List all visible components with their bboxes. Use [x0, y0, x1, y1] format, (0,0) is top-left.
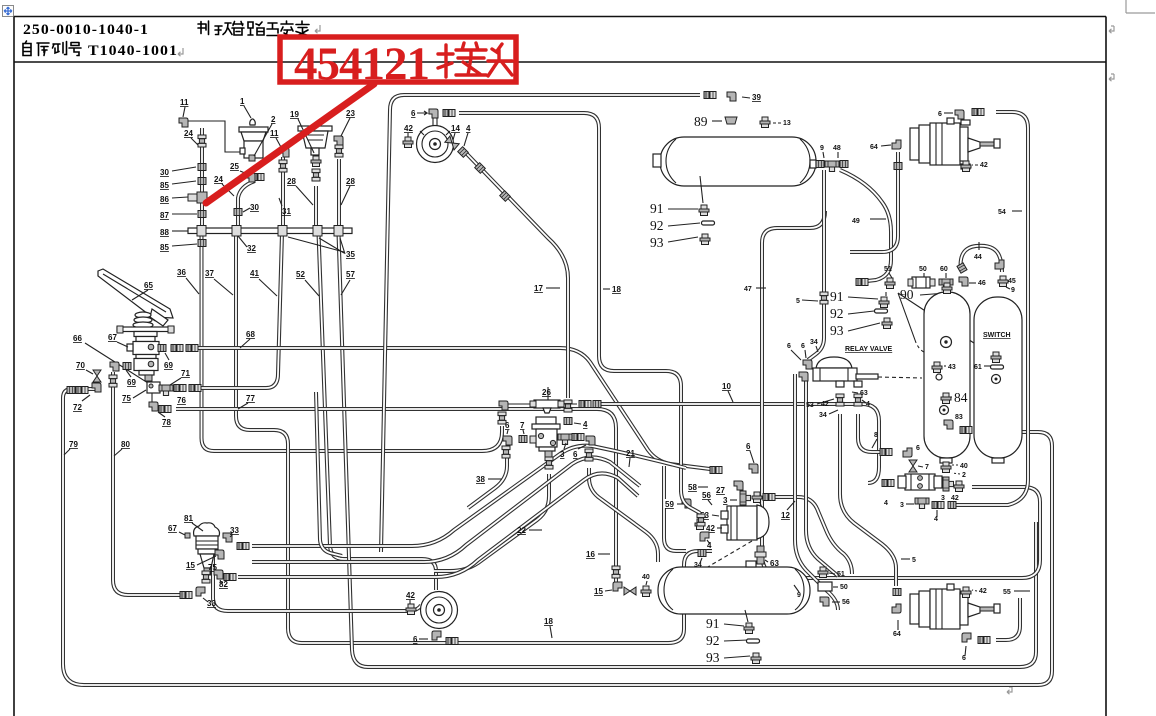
svg-text:80: 80 [121, 440, 130, 449]
svg-text:47: 47 [744, 286, 752, 293]
svg-text:28: 28 [346, 177, 355, 186]
wire pipe under valve 19 [315, 186, 317, 228]
svg-text:33: 33 [230, 526, 239, 535]
label 22 [517, 526, 542, 535]
relay valve 2 body [695, 491, 769, 550]
svg-text:77: 77 [246, 394, 255, 403]
connector stack under 23 [335, 145, 343, 157]
bolt 40 at tank 2 [641, 574, 651, 597]
svg-text:37: 37 [205, 269, 214, 278]
svg-text:23: 23 [346, 109, 355, 118]
tee fitting at tank 1 right [810, 160, 848, 172]
check valve 7 [909, 460, 929, 472]
svg-text:42: 42 [980, 162, 988, 169]
svg-text:93: 93 [830, 323, 844, 338]
svg-text:2: 2 [271, 115, 276, 124]
svg-text:92: 92 [706, 633, 720, 648]
tee 26 [530, 387, 564, 413]
label 77 [238, 394, 255, 409]
label 28 right [341, 177, 355, 205]
wire relay valve down pipe b [806, 380, 838, 576]
label 90 [900, 287, 946, 302]
svg-text:92: 92 [650, 218, 664, 233]
svg-text:6: 6 [938, 111, 942, 118]
svg-text:38: 38 [476, 475, 485, 484]
svg-text:75: 75 [122, 394, 131, 403]
label 5 at chamber 2 pipe [901, 557, 916, 564]
elbow 6 under horn 2 [413, 631, 458, 645]
connector 85 lower [198, 240, 206, 247]
connector row 82 [202, 570, 236, 589]
svg-text:63: 63 [860, 390, 868, 397]
nut 43 under relay 2 [763, 573, 789, 584]
valve 14 and fitting 4 on diagonal [445, 124, 485, 173]
svg-text:46: 46 [978, 280, 986, 287]
svg-text:250-0010-1040-1: 250-0010-1040-1 [23, 22, 149, 38]
wire pipe 10 [598, 404, 879, 483]
wire pipe 18 [459, 113, 681, 492]
wire pipe 77 [176, 409, 616, 583]
connector stack on pipe 31 [279, 160, 287, 172]
connector on pipe 80 [109, 375, 117, 387]
label 59 [664, 499, 683, 509]
label 67 [108, 333, 128, 347]
svg-text:7: 7 [925, 464, 929, 471]
serif labels 91 92 93 bottom set [706, 610, 761, 665]
svg-text:43: 43 [948, 364, 956, 371]
svg-text:86: 86 [160, 195, 169, 204]
svg-text:41: 41 [250, 269, 259, 278]
wire top pipe 39 run [404, 94, 700, 96]
svg-text:57: 57 [346, 270, 355, 279]
svg-text:83: 83 [955, 414, 963, 421]
svg-text:39: 39 [752, 93, 761, 102]
elbow 59 [682, 499, 691, 508]
svg-text:9: 9 [820, 145, 824, 152]
svg-text:55: 55 [1003, 589, 1011, 596]
svg-text:T1040-1001: T1040-1001 [88, 43, 178, 59]
svg-text:32: 32 [247, 244, 256, 253]
svg-text:17: 17 [534, 284, 543, 293]
svg-text:51: 51 [884, 266, 892, 273]
elbow and connectors 72 [67, 383, 101, 412]
svg-text:93: 93 [650, 235, 664, 250]
svg-text:3: 3 [723, 496, 728, 505]
svg-text:10: 10 [722, 382, 731, 391]
foot brake treadle valve 65 [98, 269, 174, 333]
wire hose 44 [961, 246, 1002, 272]
svg-text:24: 24 [184, 129, 193, 138]
serif labels 91 92 93 top set [650, 176, 715, 250]
svg-text:67: 67 [108, 333, 117, 342]
label 18 lower [544, 617, 553, 638]
svg-text:33: 33 [207, 599, 216, 608]
svg-text:91: 91 [830, 289, 844, 304]
svg-text:36: 36 [177, 268, 186, 277]
wire pipe 37 long run to rear tank [236, 233, 712, 643]
svg-text:67: 67 [168, 524, 177, 533]
word move handle icon [3, 6, 14, 17]
svg-text:3: 3 [941, 495, 945, 502]
wire air filter pipe run 3 [238, 473, 638, 577]
svg-text:59: 59 [665, 500, 674, 509]
svg-text:19: 19 [290, 110, 299, 119]
label 31 [279, 198, 291, 216]
svg-text:42: 42 [406, 591, 415, 600]
svg-text:21: 21 [626, 449, 635, 458]
svg-text:454121: 454121 [294, 38, 429, 90]
svg-text:2: 2 [962, 472, 966, 479]
wire pipe 36 [202, 233, 503, 451]
svg-text:64: 64 [893, 631, 901, 638]
svg-text:56: 56 [842, 599, 850, 606]
svg-text:48: 48 [833, 145, 841, 152]
pilcrow after serial [178, 48, 183, 56]
label 15 at filter [186, 556, 216, 570]
svg-text:24: 24 [214, 175, 223, 184]
svg-text:70: 70 [76, 361, 85, 370]
air horn 1 [417, 126, 454, 163]
label 55 [1003, 589, 1030, 596]
svg-text:85: 85 [160, 243, 169, 252]
valve 75 square [122, 382, 160, 403]
svg-text:9: 9 [797, 592, 801, 599]
paragraph mark right of body row [1109, 74, 1114, 81]
fitting row 8 with elbow [880, 445, 920, 457]
svg-text:5: 5 [912, 557, 916, 564]
bolt 13 [760, 117, 791, 128]
brake chamber 1 [910, 118, 1000, 169]
bolt 63 under relay 2 [755, 546, 779, 568]
air tank 1 horizontal [653, 137, 816, 186]
wire thin link from elbow 11 to valve 1 [188, 121, 243, 152]
wire brake chamber 1 left pipe [850, 152, 898, 252]
svg-text:40: 40 [960, 463, 968, 470]
connector on pipe 17 diagonal [500, 191, 511, 202]
fittings at tank 2 right end [794, 567, 850, 606]
svg-text:6: 6 [787, 343, 791, 350]
svg-text:12: 12 [781, 511, 790, 520]
connector 30 on pipe 24 [198, 164, 206, 171]
label 38 [476, 475, 502, 484]
elbow 6 at horn 1 top [411, 109, 455, 126]
label 10 [722, 382, 733, 402]
label 49 [852, 218, 886, 225]
air horn 2 [421, 592, 458, 629]
svg-text:34: 34 [810, 339, 818, 346]
wire pipe 31 [282, 157, 284, 228]
svg-text:60: 60 [940, 266, 948, 273]
label 35 with three leaders [288, 237, 355, 259]
wire pipe 24 vertical [201, 128, 203, 228]
svg-text:42: 42 [979, 588, 987, 595]
fitting row 51 50 60 46 [856, 266, 986, 290]
connector 87 [198, 211, 206, 218]
label 47 [744, 286, 766, 293]
fittings right of valve and label 69 [158, 345, 198, 371]
wire relay valve down pipe a [795, 374, 838, 610]
dashed pointer from relay 2 [706, 541, 752, 568]
elbow 33 right of filter [223, 526, 249, 550]
svg-text:11: 11 [270, 129, 279, 138]
wire pipe 49 [840, 170, 891, 282]
relay valve 1 [787, 339, 922, 419]
svg-text:64: 64 [870, 144, 878, 151]
valve 1 hydraulic reservoir [239, 97, 276, 161]
svg-text:1: 1 [240, 97, 245, 106]
svg-text:31: 31 [282, 207, 291, 216]
red annotation leader line [206, 84, 374, 203]
svg-text:9: 9 [1011, 287, 1015, 294]
svg-text:4: 4 [583, 420, 588, 429]
svg-text:11: 11 [180, 98, 189, 107]
svg-text:30: 30 [160, 168, 169, 177]
svg-text:8: 8 [874, 432, 878, 439]
labels 9 48 at tank 1 [820, 145, 841, 158]
svg-text:3: 3 [560, 450, 565, 459]
svg-text:65: 65 [144, 281, 153, 290]
paragraph mark right of header row [1109, 26, 1114, 33]
wire pipe 41 lower extension [316, 392, 342, 556]
svg-text:30: 30 [250, 203, 259, 212]
elbow 23 [334, 109, 355, 145]
label 71 [170, 369, 190, 385]
svg-text:40: 40 [642, 574, 650, 581]
connectors on pipe 17 lower [564, 400, 588, 429]
brake chamber 2 [910, 584, 1000, 629]
fitting 25 row under valve 1 [230, 162, 264, 182]
svg-text:4: 4 [934, 516, 938, 523]
thin link line through tee 26 [505, 403, 577, 405]
svg-text:RELAY VALVE: RELAY VALVE [845, 346, 893, 353]
red annotation CJK jie tou [438, 43, 512, 77]
svg-text:45: 45 [1008, 278, 1016, 285]
air filter 81 assembly [168, 514, 220, 575]
svg-text:6: 6 [413, 635, 418, 644]
red annotation box 454121 [280, 37, 516, 82]
svg-text:42: 42 [951, 495, 959, 502]
hose 44 fittings and labels 45 9 [957, 242, 1016, 294]
svg-text:6: 6 [962, 655, 966, 662]
elbow fitting 11 [179, 98, 189, 127]
svg-text:44: 44 [974, 254, 982, 261]
svg-text:61: 61 [974, 364, 982, 371]
fitting 89 [694, 114, 737, 129]
pilcrow after title [315, 25, 320, 33]
svg-text:71: 71 [181, 369, 190, 378]
svg-text:89: 89 [694, 114, 708, 129]
svg-text:42: 42 [404, 124, 413, 133]
svg-text:27: 27 [716, 486, 725, 495]
svg-text:68: 68 [246, 330, 255, 339]
label 76 [177, 396, 186, 405]
svg-text:93: 93 [706, 650, 720, 665]
elbow 6 under chamber 2 [962, 633, 990, 662]
svg-text:34: 34 [819, 412, 827, 419]
label 68 [240, 330, 255, 348]
svg-text:91: 91 [650, 201, 664, 216]
connector 4 and elbow 6 right [572, 434, 595, 462]
label 79 [64, 440, 78, 455]
svg-text:92: 92 [830, 306, 844, 321]
svg-text:26: 26 [542, 388, 551, 397]
elbow 64 at chamber 2 [892, 589, 901, 639]
bolt 42 at horn 1 [403, 124, 413, 148]
svg-text:18: 18 [544, 617, 553, 626]
svg-text:78: 78 [162, 418, 171, 427]
wire brake chamber 2 drain pipe [996, 598, 1020, 640]
label 54 [998, 209, 1022, 216]
svg-text:69: 69 [127, 378, 136, 387]
wire pipe 68 [196, 348, 710, 469]
connector on pipe 5a [820, 292, 828, 304]
svg-text:85: 85 [160, 181, 169, 190]
wire pipe 47 big loop [762, 211, 1040, 578]
bolt 42 at horn 2 [406, 591, 416, 615]
label 80 [114, 440, 130, 456]
tee 3 under cross [900, 498, 956, 523]
svg-text:25: 25 [230, 162, 239, 171]
paragraph mark bottom of diagram [1007, 687, 1012, 694]
svg-text:4: 4 [884, 500, 888, 507]
svg-text:4: 4 [866, 401, 870, 408]
foot valve body 67 [127, 332, 159, 382]
svg-text:28: 28 [287, 177, 296, 186]
connector stack into relay 2 [697, 514, 705, 526]
wire pipe 17 [466, 153, 568, 398]
wire brake valve bottom pipe [434, 474, 549, 571]
relay valve 2 group [688, 442, 795, 520]
elbow 33 lower at filter drain [180, 587, 216, 608]
svg-text:66: 66 [73, 334, 82, 343]
svg-text:53: 53 [806, 402, 814, 409]
labels 30 85 86 87 88 85 [160, 167, 197, 252]
wire pipe 71 76 run [200, 387, 266, 389]
svg-text:76: 76 [177, 396, 186, 405]
air tank B vertical with switch [974, 297, 1022, 463]
elbow 11 second [270, 129, 289, 157]
label 32 [238, 236, 256, 253]
svg-text:6: 6 [505, 421, 510, 430]
label 8 [872, 432, 878, 448]
svg-text:4: 4 [466, 124, 471, 133]
svg-text:42: 42 [821, 401, 829, 408]
label 24 second [214, 175, 234, 196]
connector and elbow 39 on top run [704, 92, 761, 103]
connector 34 at tank 2 [694, 550, 706, 570]
wire pipe 57 long bottom run [339, 233, 1037, 667]
svg-text:69: 69 [164, 361, 173, 370]
wire pipe 80 from foot valve to filter [113, 372, 182, 595]
tee 3 42 right cluster [941, 477, 964, 502]
svg-text:79: 79 [69, 440, 78, 449]
tee and connectors on line 71 [159, 385, 201, 396]
label 16 [586, 550, 610, 559]
elbow 69 left under valve [110, 362, 136, 387]
wire pipe 5 upper feed [808, 170, 824, 360]
wire link from pipe 18 to relay valve 2 [681, 490, 700, 513]
wire pipe 5 lower to brake chamber [840, 414, 896, 586]
svg-text:58: 58 [688, 483, 697, 492]
svg-text:SWITCH: SWITCH [983, 332, 1011, 339]
wire pipe from fitting 25 [238, 181, 255, 228]
elbow 6 above chamber 1 [938, 109, 984, 120]
wire pipe under elbow 23 [338, 159, 340, 228]
svg-text:5: 5 [796, 298, 800, 305]
bolt 42 at chamber 2 [961, 587, 987, 598]
header line2 CJK: zi xu lie hao [23, 41, 81, 56]
svg-text:91: 91 [706, 616, 720, 631]
label 17 [534, 284, 560, 293]
svg-text:52: 52 [296, 270, 305, 279]
svg-text:15: 15 [594, 587, 603, 596]
label 28 left [287, 177, 313, 205]
wire pipe from horn elbow vertical [381, 95, 404, 552]
svg-text:18: 18 [612, 285, 621, 294]
svg-text:22: 22 [517, 526, 526, 535]
bolt 42 under chamber 1 [961, 161, 988, 172]
svg-text:88: 88 [160, 228, 169, 237]
svg-text:6: 6 [916, 445, 920, 452]
bolt 40 and fitting 2 under tank A [941, 462, 968, 479]
svg-text:56: 56 [702, 491, 711, 500]
wire air filter pipe run 2 [252, 457, 640, 562]
elbow and connectors on line 78 [149, 393, 171, 427]
fitting stack 24 on pipe [184, 129, 206, 147]
tee 3 right of valve [558, 434, 572, 459]
svg-text:6: 6 [411, 109, 416, 118]
elbow 6 and fitting 7 left of valve [502, 421, 536, 458]
svg-text:35: 35 [346, 250, 355, 259]
svg-text:4: 4 [707, 541, 712, 550]
svg-text:3: 3 [900, 502, 904, 509]
long pointer lines from 90 area [898, 293, 983, 349]
manifold bar 88 [188, 226, 352, 237]
connector 30 on s-pipe [234, 203, 259, 216]
serif labels 91 92 93 middle set [830, 289, 892, 338]
labels 36 37 41 52 57 [177, 268, 355, 296]
wire pipe 79 long chassis loop [63, 389, 1052, 685]
four way cross valve [882, 474, 942, 507]
wire pipe 54 [956, 112, 1028, 505]
wire short pipe into tank 2 left [664, 466, 686, 551]
wire lower horn feed pipe [213, 548, 421, 611]
svg-text:50: 50 [919, 266, 927, 273]
label 5 upper [796, 298, 818, 305]
connector and elbow 15 drain [594, 566, 636, 596]
svg-text:54: 54 [998, 209, 1006, 216]
wire air filter pipe run 1 [252, 446, 686, 546]
wire pipe 38 [468, 450, 507, 508]
svg-text:51: 51 [837, 571, 845, 578]
check valve 70 [76, 361, 101, 382]
svg-text:16: 16 [586, 550, 595, 559]
svg-text:6: 6 [573, 450, 578, 459]
page crop mark top right [1126, 0, 1155, 13]
connector stack under 19 [312, 169, 320, 181]
tee fitting 86 [188, 192, 207, 203]
header title CJK: zhi dong guan lu yu an zhuang [198, 21, 309, 37]
brake control valve center [532, 417, 560, 469]
svg-text:6: 6 [801, 343, 805, 350]
svg-text:6: 6 [746, 442, 751, 451]
elbow left of tee 26 [498, 401, 508, 424]
wire pipe 41 [202, 233, 282, 388]
wire pipe 8 west leg [858, 414, 880, 452]
valve 19 air governor [290, 110, 332, 167]
label 21 [626, 449, 635, 467]
svg-text:72: 72 [73, 403, 82, 412]
